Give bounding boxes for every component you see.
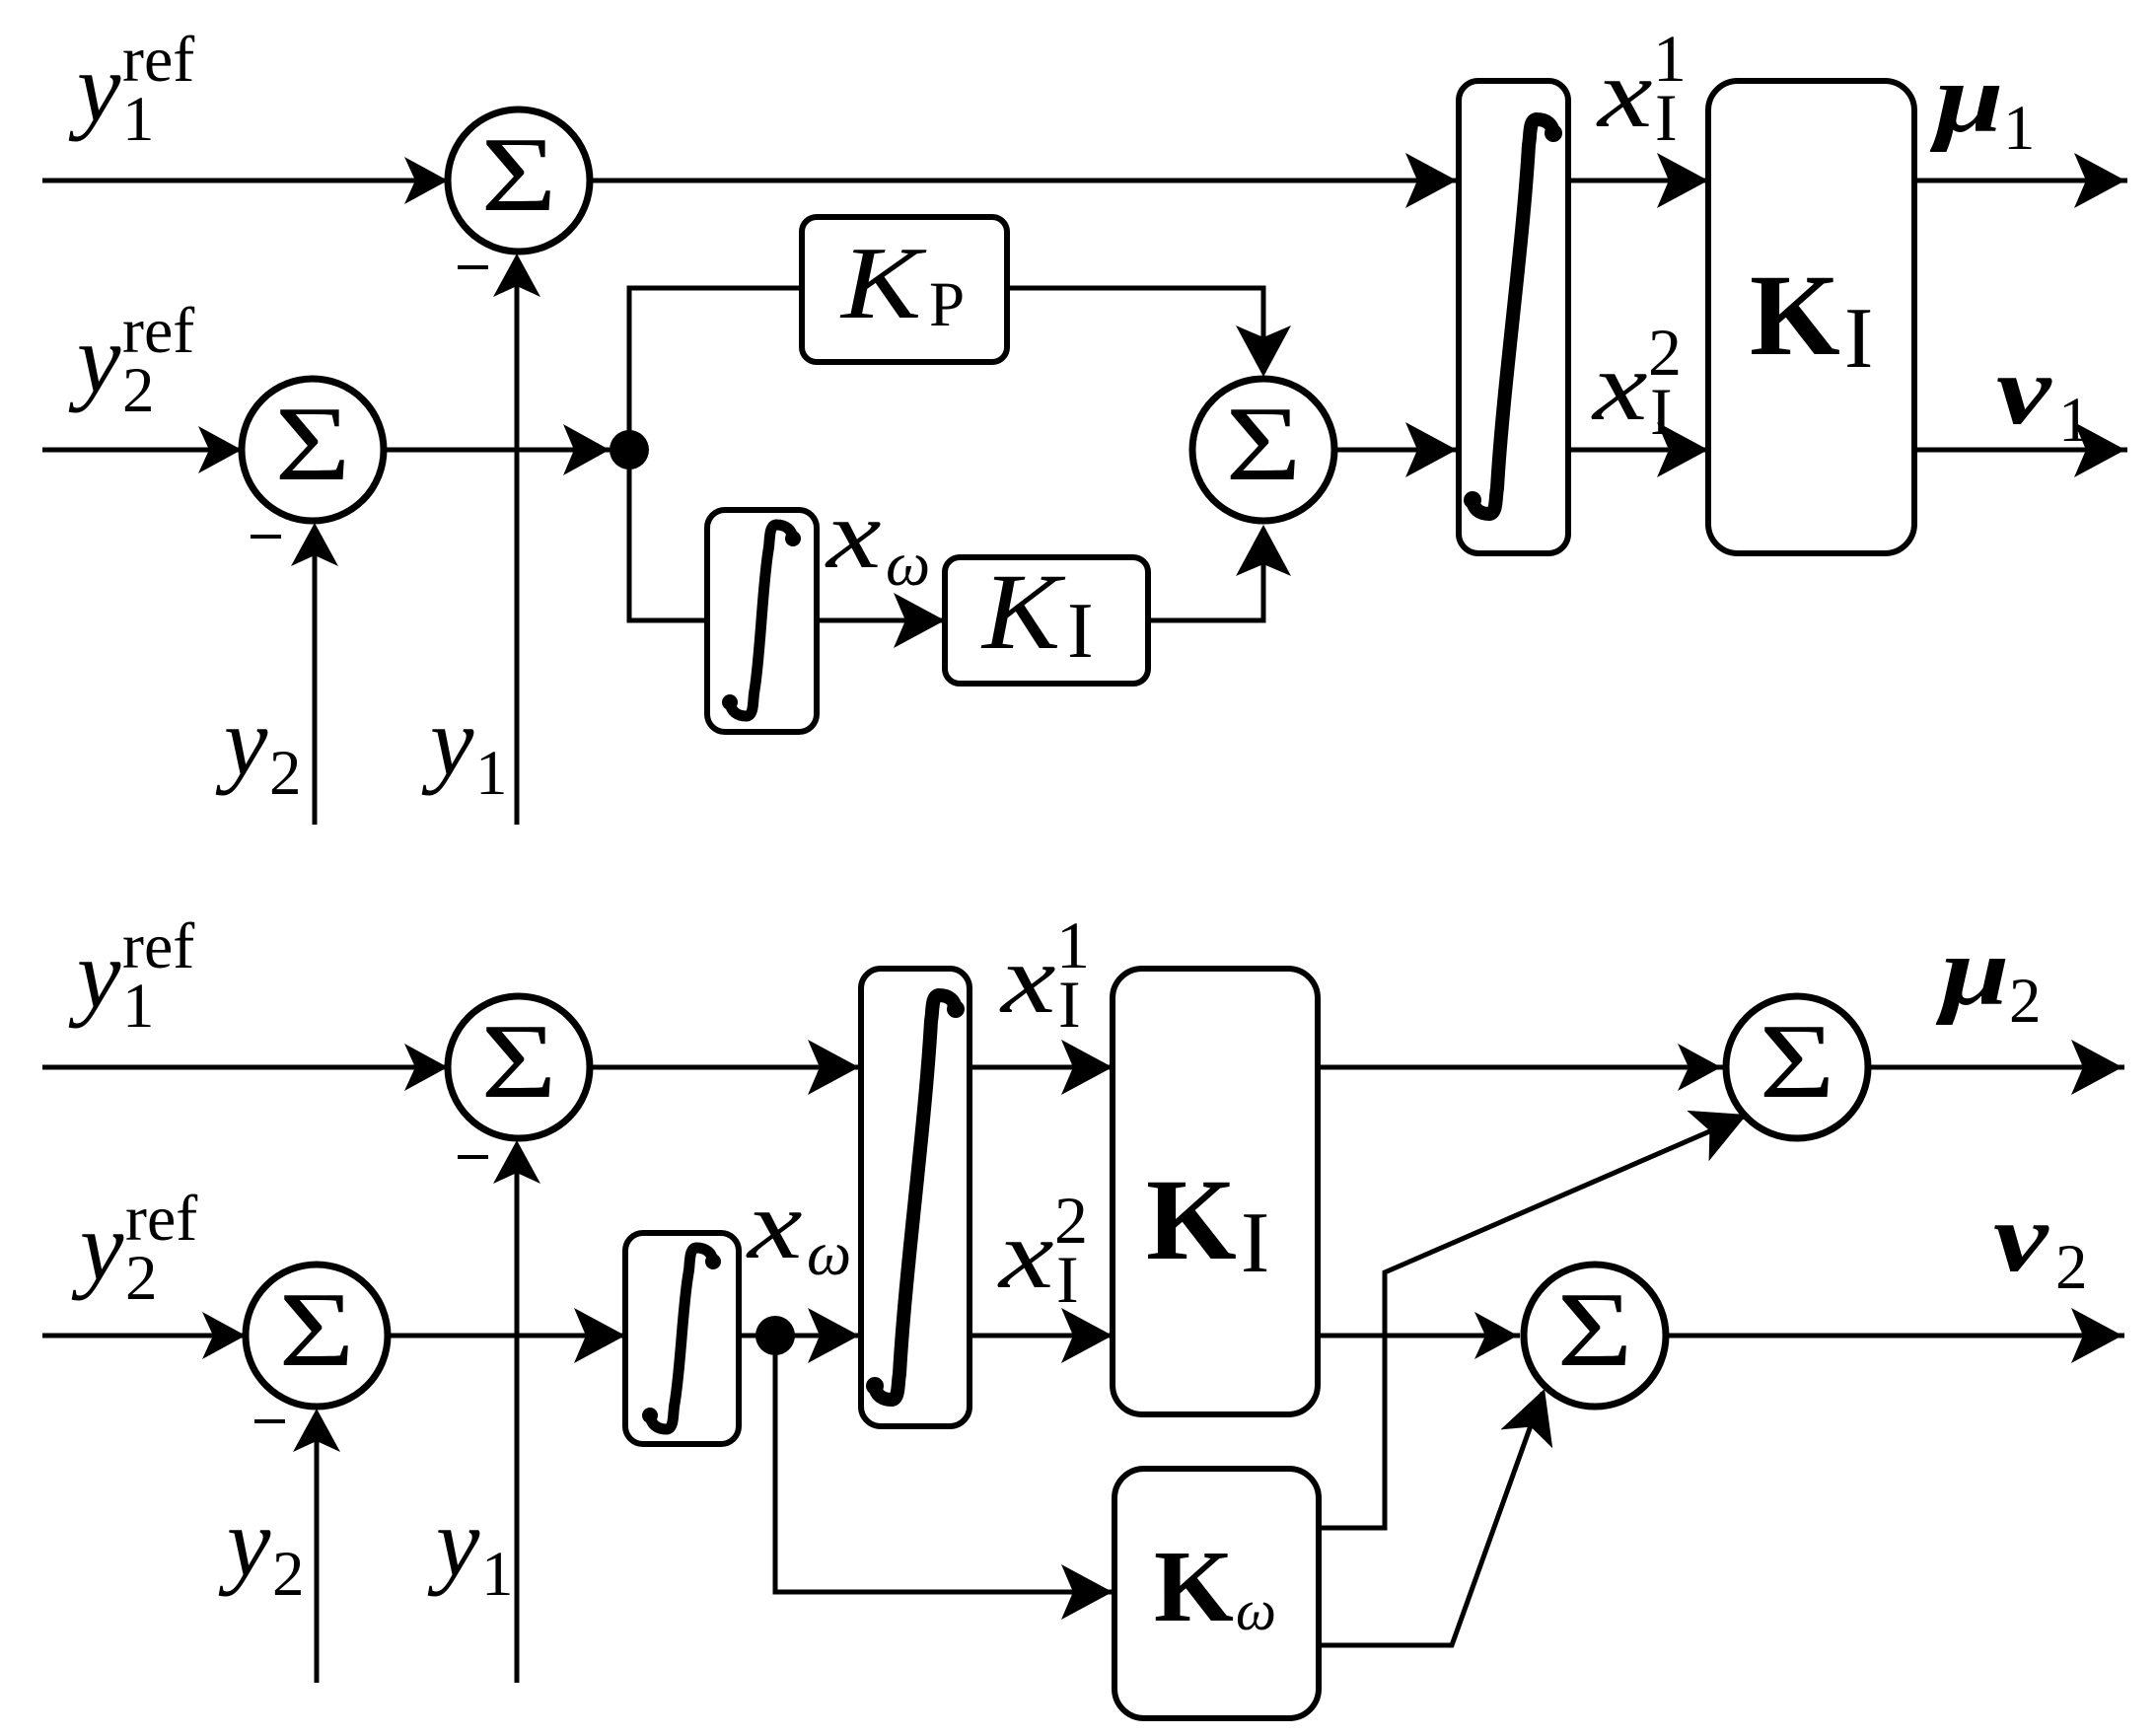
label x_I_2 <box>1591 315 1682 449</box>
summing junction S6 <box>1726 996 1868 1138</box>
minus sign at S4 <box>458 1155 488 1159</box>
wire y1ref into sum S4 <box>42 1044 450 1091</box>
wire node A down to integrator Iw <box>629 450 707 620</box>
svg-text:I: I <box>1056 1242 1079 1317</box>
wire KI to sum S6 <box>1318 1044 1723 1091</box>
svg-text:K: K <box>1154 1530 1234 1643</box>
summing junction S7 <box>1524 1265 1666 1407</box>
svg-text:μ: μ <box>1929 44 2003 153</box>
label x_I_1 <box>1596 21 1687 155</box>
svg-text:ω: ω <box>886 529 930 599</box>
svg-text:y: y <box>68 33 121 142</box>
label x_I_1 lower <box>999 907 1090 1042</box>
wire nu1 output <box>1914 422 2127 477</box>
wire S1 to integrator block I1 <box>590 153 1459 208</box>
wire y1 vertical into S4 <box>493 1140 540 1683</box>
svg-text:I: I <box>1655 80 1678 155</box>
wire S3 to integrator block I1 <box>1334 422 1459 477</box>
label KP <box>839 226 965 340</box>
svg-text:Σ: Σ <box>279 1271 355 1389</box>
wire node A up to KP <box>629 288 802 450</box>
label y1 lower <box>427 1487 514 1610</box>
integrator block I2 <box>861 969 970 1426</box>
svg-text:ω: ω <box>1236 1578 1276 1642</box>
svg-text:K: K <box>1146 1155 1237 1284</box>
svg-text:2: 2 <box>2055 1232 2088 1303</box>
summing junction S4 <box>448 996 590 1138</box>
svg-text:2: 2 <box>2009 966 2042 1037</box>
label nu2 <box>1993 1184 2088 1303</box>
svg-text:y: y <box>215 687 268 796</box>
svg-text:Σ: Σ <box>481 1003 557 1121</box>
svg-text:I: I <box>1241 1195 1269 1291</box>
label y2_ref input lower <box>71 1183 197 1314</box>
label mu2 <box>1935 917 2041 1037</box>
summing junction S3 <box>1192 379 1334 521</box>
svg-text:Σ: Σ <box>275 386 351 503</box>
wire I1 to KI matrix bottom <box>1568 422 1710 477</box>
integrator block I1 <box>1459 81 1568 553</box>
label KI bold lower <box>1146 1155 1269 1291</box>
wire K_omega upper output to S6 <box>1319 1111 1747 1528</box>
label y1_ref input lower <box>68 910 194 1042</box>
svg-text:I: I <box>1058 967 1081 1042</box>
wire KI to sum S7 <box>1318 1312 1520 1359</box>
gain block KI <box>945 557 1148 684</box>
svg-text:1: 1 <box>2003 93 2036 164</box>
svg-text:y: y <box>68 919 121 1029</box>
minus sign at S5 <box>254 1419 285 1423</box>
svg-text:ν: ν <box>1993 1184 2049 1292</box>
gain block KP <box>802 217 1007 362</box>
svg-text:I: I <box>1067 588 1094 675</box>
label K_omega <box>1154 1530 1276 1643</box>
wire K_omega lower output to S7 <box>1319 1389 1552 1645</box>
wire KP to sum S3 <box>1007 288 1291 377</box>
svg-text:K: K <box>839 226 927 340</box>
svg-text:ω: ω <box>807 1218 851 1288</box>
svg-text:ref: ref <box>125 1183 197 1255</box>
wire y2ref into sum S5 <box>42 1312 248 1359</box>
wire S2 to node A <box>384 424 611 475</box>
svg-text:x: x <box>997 1200 1054 1309</box>
node A junction dot <box>610 430 649 470</box>
svg-text:x: x <box>1596 39 1653 148</box>
svg-text:x: x <box>746 1171 803 1279</box>
svg-text:I: I <box>1844 291 1873 387</box>
wire S5 to integrator Iw2 <box>388 1308 627 1363</box>
wire I2 to KI matrix top lower <box>970 1040 1114 1095</box>
label KI bold <box>1750 251 1873 387</box>
label y2 lower <box>218 1487 305 1610</box>
minus sign at S1 <box>458 265 488 269</box>
wire mu2 output <box>1868 1040 2124 1095</box>
wire S4 to integrator block I2 <box>590 1040 861 1095</box>
label y1_ref input <box>68 24 194 155</box>
svg-text:1: 1 <box>2058 385 2091 456</box>
wire Iw2 to integrator I2 with node B <box>739 1308 863 1363</box>
minus sign at S2 <box>251 535 281 539</box>
svg-text:Σ: Σ <box>1760 1003 1835 1121</box>
wire y2 vertical into S2 <box>291 523 338 825</box>
label KI <box>980 551 1094 675</box>
label nu1 <box>1996 336 2091 456</box>
gain matrix block KI bold <box>1708 81 1914 553</box>
wire I1 to KI matrix top <box>1568 153 1710 208</box>
svg-text:x: x <box>825 480 882 589</box>
wire nu2 output <box>1666 1308 2124 1363</box>
svg-text:K: K <box>1750 251 1840 380</box>
integrator block Iw <box>707 510 817 732</box>
svg-text:y: y <box>71 1192 124 1301</box>
wire I2 to KI matrix bottom lower <box>970 1308 1114 1363</box>
svg-text:ref: ref <box>122 295 194 367</box>
svg-text:Σ: Σ <box>1557 1271 1633 1389</box>
summing junction S1 <box>448 109 590 252</box>
wire KI to sum S3 <box>1148 525 1291 620</box>
label y2 <box>215 687 302 809</box>
label y1 <box>421 687 508 809</box>
svg-text:Σ: Σ <box>481 116 557 234</box>
wire mu1 output <box>1914 153 2127 208</box>
wire y2ref into sum S2 <box>42 426 244 473</box>
wire node B down to K_omega <box>775 1336 1114 1620</box>
summing junction S5 <box>246 1265 388 1407</box>
label y2_ref input <box>68 295 194 426</box>
svg-text:ref: ref <box>122 24 194 96</box>
gain matrix block KI bold lower <box>1113 969 1318 1414</box>
svg-text:x: x <box>1591 332 1648 441</box>
wire Iw to gain KI <box>817 593 947 648</box>
summing junction S2 <box>242 379 384 521</box>
svg-text:1: 1 <box>475 738 508 809</box>
label x_omega <box>825 480 930 599</box>
svg-text:ref: ref <box>122 910 194 982</box>
svg-text:y: y <box>421 687 474 796</box>
wire y1 vertical into S1 <box>493 253 540 825</box>
svg-text:ν: ν <box>1996 336 2052 445</box>
svg-text:y: y <box>218 1487 271 1597</box>
label mu1 <box>1929 44 2035 164</box>
label x_I_2 lower <box>997 1183 1088 1317</box>
gain matrix block K_omega <box>1114 1469 1319 1718</box>
svg-text:2: 2 <box>272 1539 305 1610</box>
svg-text:Σ: Σ <box>1226 386 1302 503</box>
svg-text:2: 2 <box>269 738 302 809</box>
wire y2 vertical into S5 <box>293 1409 340 1683</box>
svg-text:P: P <box>929 269 965 340</box>
svg-text:y: y <box>427 1487 480 1597</box>
svg-text:x: x <box>999 925 1056 1034</box>
node B junction dot <box>755 1316 795 1355</box>
svg-text:y: y <box>68 304 121 413</box>
wire y1ref into sum S1 <box>42 157 450 204</box>
svg-text:K: K <box>980 551 1066 672</box>
svg-text:μ: μ <box>1935 917 2009 1026</box>
label x_omega lower <box>746 1171 851 1288</box>
svg-text:1: 1 <box>481 1539 514 1610</box>
integrator block Iw2 <box>625 1233 739 1444</box>
